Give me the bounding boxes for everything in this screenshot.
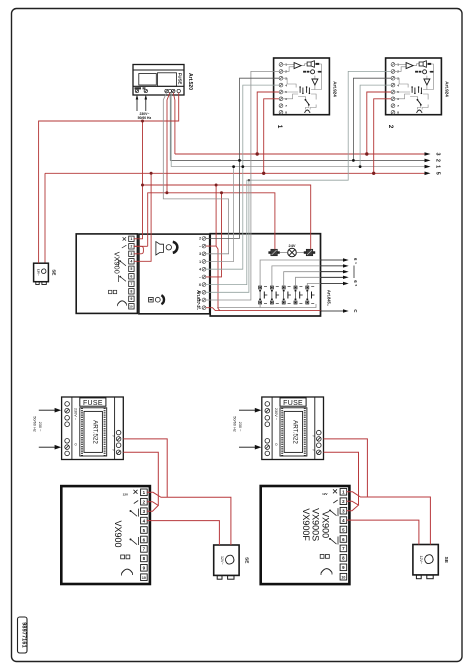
call button S3 [282,286,291,304]
VX900 monitor terminals 1-10 [141,489,148,581]
loudspeaker icon (Art.837-2) [156,242,177,255]
svg-text:~: ~ [199,276,201,280]
svg-text:VX900: VX900 [320,511,330,538]
svg-text:Art.924: Art.924 [444,81,449,97]
svg-text:VX900: VX900 [113,520,123,547]
svg-text:SE: SE [52,269,57,275]
wire: right ART.522 output to monitor t2/t3 (red) [324,452,359,505]
ART.522 body [62,397,124,460]
monitor U10 VX900/VX900S/VX900F (apartment 2) [261,486,350,584]
wire: right ART.522 output to monitor t1 and SE (red) [324,439,368,497]
svg-text:230 ~: 230 ~ [238,422,243,433]
entrance panel amplifier U3 Art.924 no.2 [386,58,442,115]
svg-text:7: 7 [130,282,132,286]
svg-text:3: 3 [130,252,132,256]
wire: Art.924 no.2 t4 to bus 1 (grey) [360,85,391,167]
svg-text:8: 8 [285,111,287,115]
wire: Art.924 no.1 t3 to bus 2 and Art.837-2 terminal 2 (dark) [206,78,279,238]
wire: branch to Art.837-2 terminal ~2 (red) [206,193,222,277]
power supply U7 ART.522 (left apartment) [62,397,124,460]
svg-text:7: 7 [397,104,399,108]
wire: left ART.522 output to monitor t1 and SE (red) [123,439,167,497]
svg-text:12V~: 12V~ [36,269,40,276]
svg-text:7: 7 [285,104,287,108]
fuse F3 [280,398,306,406]
wire: Art.837-2 terminal 1 to bus 1 (grey) [206,167,234,262]
call output arrows 6.1 - 6.5 [321,258,349,285]
svg-text:0: 0 [274,443,278,445]
svg-text:ART.522: ART.522 [292,420,299,444]
svg-text:ART.522: ART.522 [91,420,98,444]
Art.924 internal wiring [395,64,434,110]
svg-text:2: 2 [387,125,394,129]
svg-text:98977161: 98977161 [20,622,26,648]
svg-text:2: 2 [130,245,132,249]
svg-text:50/60 Hz: 50/60 Hz [32,416,37,432]
loudspeaker SP2 [419,61,426,68]
riser bus line 3 (red) [173,93,440,156]
wire: button S4 to call output 6.4 [296,277,321,286]
wire: Art.924 no.2 t5 to bus 3 (red) [367,92,391,154]
microphone MIC2 [423,70,427,74]
wire: lamp feed line to right block (red) [143,185,311,249]
wire: bus 5 branch to VX900 terminal 4 (red) [134,173,151,261]
svg-text:24V: 24V [289,243,296,248]
svg-text:1: 1 [276,125,283,129]
lamp connector block left [268,249,279,256]
Art.520 terminals (screw) [135,89,180,92]
wire: Art.924 no.1 t4 to bus 1 and Art.837-2 terminal 4 (grey) [206,85,279,269]
VX900 monitor terminals 1-10 [340,489,347,581]
wire: Art.520 to Art.837-2 terminal 3 (grey) [163,93,228,254]
svg-text:10: 10 [129,305,133,309]
svg-text:230V ~: 230V ~ [74,408,78,421]
ART.522 mains terminals [65,402,70,456]
svg-text:10: 10 [142,576,146,580]
VX900 monitor internal symbols [121,490,139,576]
svg-text:1: 1 [130,237,132,241]
ART.522 body [262,397,324,460]
svg-text:FUSE: FUSE [83,400,103,407]
amplifier A4 [424,79,430,85]
wire: button S3 to call output 6.3 [284,272,321,286]
VX900 riser terminals 1-10 [129,236,134,309]
svg-text:50/60 Hz: 50/60 Hz [138,116,152,120]
wire: button common rail [260,304,316,308]
transformer T1 ART.522 [80,408,107,456]
entrance panel amplifier U2 Art.924 no.1 [274,58,330,115]
svg-text:4: 4 [199,268,201,272]
Art.924 body [274,58,330,115]
svg-text:230V ~: 230V ~ [274,408,278,421]
Art.924 terminals 1-8 [279,63,283,115]
wire: left ART.522 output to monitor t2/t3 (red) [123,452,158,505]
svg-text:2: 2 [199,237,201,241]
svg-text:~: ~ [112,448,115,453]
call button S4 [294,286,303,304]
call button S1 [259,286,268,304]
fuse F2 [80,398,106,406]
ART.522 mains terminals [265,402,270,456]
riser bus line 5 (red) [45,172,441,264]
amplifier A3 [406,63,413,69]
ART.522 output terminals [116,430,121,454]
wire: monitor t4 to SE (red) [346,520,419,544]
mains arrows into left ART.522 [39,408,61,450]
svg-text:0: 0 [74,443,78,445]
wire: Art.924 no.2 t6 to bus 5 (red) [374,99,391,174]
svg-text:~: ~ [199,245,201,249]
wire: branch to Art.837-2 terminal R (grey) [206,180,249,292]
call button unit U6 Art.845 body [210,234,320,316]
svg-text:12V~: 12V~ [419,556,423,565]
wire: Art.924 no.2 t3 to bus 2 (dark) [353,78,391,160]
ART.522 output terminals [317,430,322,454]
wire: Art.520 AC out to lamp left block and VX900 t2 (red) [167,93,170,193]
wire: VX900 t2-t3 jumper (red) [134,246,144,253]
svg-text:12V: 12V [322,492,327,496]
monitor U4 VX900 (riser unit) body [76,234,137,314]
svg-text:VX900: VX900 [113,252,122,274]
amplifier A1 [294,63,301,69]
wire: C rail inside Art.845 (red) [206,308,321,311]
svg-text:8: 8 [130,290,132,294]
amplifier A2 [312,79,318,85]
mains arrows into right ART.522 [239,408,261,450]
svg-text:SE: SE [244,557,250,564]
interface U5 Art.837-2 body [139,234,210,314]
svg-text:1: 1 [435,165,441,168]
Art.837-2 terminal strip (2 ~ 3 1 4 ~ X R P C) [199,237,206,311]
svg-text:~: ~ [312,434,315,439]
svg-text:10: 10 [341,576,345,580]
wire: button S2 to call output 6.2 [272,266,321,286]
loudspeaker SP1 [307,61,314,68]
svg-text:Art.845..: Art.845.. [326,290,331,306]
svg-text:VX900F: VX900F [301,508,311,541]
svg-text:8: 8 [397,111,399,115]
protection network cluster [300,88,309,93]
common output arrow C [321,309,359,313]
wire: Art.924 no.2 t2 to Art.837-2 terminal X (grey) [206,71,391,284]
protection network cluster [412,88,421,93]
Art.520 mains input arrows 230V [136,95,147,112]
sounder SE (apartment 2, 12V) [413,545,449,579]
Art.924 body [386,58,442,115]
microphone MIC1 [311,70,315,74]
call button S5 [306,286,315,304]
call button S2 [270,286,279,304]
svg-text:FUSE: FUSE [178,73,183,85]
call switch SW2 [417,100,422,113]
wire: monitor t4 to SE (red) [147,521,220,545]
svg-text:12V: 12V [123,492,128,496]
svg-text:50/60 Hz: 50/60 Hz [233,416,238,432]
lamp connector block right [304,249,315,256]
svg-text:9: 9 [130,297,132,301]
Art.520 terminal strip marks [135,87,142,89]
sounder SE (apartment 1, 12V) [214,545,250,579]
riser bus line 1 (grey) [171,93,440,169]
Art.924 terminals 1-8 [391,63,395,115]
svg-text:3: 3 [435,153,441,156]
microphone icon (Art.837-2) [149,295,164,304]
wire: Art.924 no.1 t2 to Art.837-2 terminal P (grey) [206,71,279,300]
wire: Art.924 no.1 t6 to bus 5 (red) [264,99,279,174]
Art.924 internal wiring [283,64,322,110]
svg-text:VX900S: VX900S [311,508,321,541]
panel lamp LP1 24V [280,243,304,257]
monitor U8 VX900 (apartment 1) [61,486,150,584]
wire: branch to VX900 terminal 1 (red) [134,121,143,239]
svg-text:230 ~: 230 ~ [38,422,43,433]
svg-text:5: 5 [130,267,132,271]
svg-text:1: 1 [199,260,201,264]
svg-text:~: ~ [312,448,315,453]
power supply U9 ART.522 (right apartment) [262,397,324,460]
svg-text:6: 6 [130,275,132,279]
power supply U1 Art.520 [133,65,184,96]
svg-text:12V~: 12V~ [220,556,224,565]
electric lock / sounder SE (left) [34,263,57,284]
wire: Art.924 no.1 t5 to bus 3 (red) [257,92,279,154]
svg-text:2: 2 [435,159,441,162]
call switch SW1 [305,100,310,113]
junction dots (grey/dark nets) [232,159,361,168]
transformer T2 ART.522 [280,408,307,456]
svg-text:5: 5 [435,172,441,175]
svg-text:Art.520: Art.520 [187,73,193,90]
wire: button S1 to call output 6.1 [260,260,320,286]
svg-text:SE: SE [443,557,449,564]
junction dots (red nets) [141,120,375,195]
svg-text:~: ~ [112,434,115,439]
svg-text:Art.924: Art.924 [332,81,337,97]
wire: branch to Art.837-2 terminal ~ and C rail (red) [206,185,216,246]
svg-text:4: 4 [130,260,132,264]
wire: Art.520 AC out to SE and VX900 t1 (red, net A) [39,93,179,263]
VX900 monitor internal symbols [320,489,338,575]
svg-text:3: 3 [199,252,201,256]
drawing number label 98977161 [18,617,28,653]
VX900 riser internal symbols [109,237,127,306]
riser bus line 2 (dark) [170,93,441,162]
svg-text:FUSE: FUSE [283,400,303,407]
wire: button S5 to call output 6.5 [307,284,320,287]
